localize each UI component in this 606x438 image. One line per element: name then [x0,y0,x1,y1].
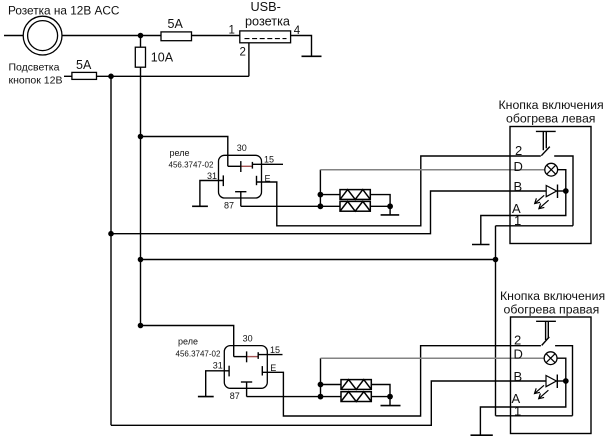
wire lamp line D right (gray) [321,357,545,359]
node junction pin1 riser [493,257,499,263]
node LED junction right [563,378,569,384]
wire 12V to relay K2 pin 30 [141,326,234,357]
svg-text:30: 30 [237,143,247,153]
switch S2 inside SW2 [536,320,556,322]
heater element R3 upper right [321,380,391,397]
wire relay K2 pin 15 stub [258,354,282,356]
node junction main 12V [138,33,144,39]
node heater junction lower right [318,394,324,400]
ground GND4 (button SW1) [472,244,490,246]
LED VD1 inside SW1 [546,186,556,197]
wire 12V to fuse F3 [140,36,142,48]
svg-text:2: 2 [514,332,521,347]
svg-text:розетка: розетка [245,15,291,29]
LED VD2 inside SW2 [546,376,556,387]
ground GND2 (relay K1) [192,205,208,207]
fuse F3 10A [135,47,145,67]
button SW2 right heater button [500,289,605,434]
wire button SW1 pin 1 row [496,225,574,227]
svg-text:Розетка на 12В ACC: Розетка на 12В ACC [8,4,120,18]
heater element R2 lower left [340,201,390,211]
node junction 12V bus to buttons [138,257,144,263]
wire USB pin 2 down to backlight net [248,43,250,77]
svg-text:5А: 5А [168,17,184,31]
wire button SW2 pin A to ground [480,381,565,435]
svg-text:30: 30 [243,333,253,343]
svg-text:5А: 5А [76,58,92,72]
socket XS1 12V ACC (double circle) [23,16,62,55]
node heater junction upper left [318,192,324,198]
svg-text:Кнопка включения: Кнопка включения [499,98,604,112]
wire backlight label to fuse F1 [64,75,72,77]
svg-text:15: 15 [264,155,274,165]
svg-text:31: 31 [207,171,217,181]
svg-text:кнопок 12В: кнопок 12В [9,75,63,87]
wire 12V bus to buttons pin 1 [141,259,496,261]
svg-text:B: B [514,179,523,194]
wire left stub to socket [4,35,23,37]
svg-text:E: E [270,363,276,373]
node junction backlight to B bus [108,231,114,237]
ground GND1 (USB) [302,55,322,57]
svg-text:87: 87 [230,391,240,401]
relay K1 456.3747-02 [169,143,275,211]
svg-text:обогрева левая: обогрева левая [506,112,595,126]
USB socket XS2 [240,31,291,43]
node heater junction lower left [318,203,324,209]
fuse F1 5A (backlight) [72,72,97,79]
wire heater tie riser left [319,170,321,207]
wire relay K1 pin 31 to ground [200,181,223,206]
relay K2 456.3747-02 [176,333,281,401]
ground GND5 (relay K2) [198,396,214,398]
wire lamp line D left (gray) [320,169,544,171]
wire 12V bus vertical [140,67,142,325]
svg-text:реле: реле [170,148,190,158]
wire relay K1 pin E to button SW1 pin 2 [257,156,541,226]
svg-text:Кнопка включения: Кнопка включения [500,289,605,303]
wire button SW1 pin A to ground [481,191,566,244]
wire relay K2 pin 31 to ground [206,371,229,396]
lamp HL1 inside SW1 [545,163,558,176]
pin 1 USB [229,25,235,37]
switch S1 inside SW1 [536,130,556,132]
wire relay K1 pin 87 to heaters [241,205,340,207]
node backlight 12V label [9,62,63,87]
wire socket to fuse F2 [62,35,161,37]
node heater junction upper right [318,382,324,388]
wire button SW2 switch loop [555,346,572,416]
svg-text:D: D [514,159,523,174]
svg-text:2: 2 [515,143,522,158]
node 12V ACC socket label [8,4,120,18]
wire pin1 riser vertical [495,226,497,416]
svg-text:15: 15 [270,345,280,355]
wire relay K1 pin 15 stub [252,163,283,165]
ground GND6 (heater right) [381,405,401,407]
wire backlight bus vertical [110,76,112,425]
wire button SW2 pin 1 row [496,415,573,417]
wire relay K2 pin 87 to heaters [247,396,341,398]
wire heater to ground left [389,206,391,215]
wire USB pin 4 to ground [291,36,312,57]
wire 12V to relay K1 pin 30 [141,137,228,167]
ground GND3 (heater left) [381,214,400,216]
node backlight junction [108,74,114,80]
svg-text:31: 31 [213,361,223,371]
svg-text:USB-: USB- [251,0,281,14]
svg-text:Подсветка: Подсветка [9,62,60,74]
svg-text:456.3747-02: 456.3747-02 [176,349,221,358]
lamp HL2 inside SW2 [544,352,557,365]
heater element R1 upper left [320,190,390,207]
svg-text:2: 2 [240,47,246,59]
fuse F2 5A [161,32,192,41]
svg-text:10А: 10А [151,51,174,65]
button SW1 left heater button [499,98,604,244]
svg-text:обогрева правая: обогрева правая [504,303,600,317]
heater element R4 lower right [341,392,390,402]
wire heater to ground right [389,397,391,406]
svg-text:87: 87 [224,201,234,211]
node heater ground junction right [387,394,393,400]
wire bottom backlight bus to right button B [111,381,546,425]
pin 4 USB [294,25,301,37]
node LED junction left [563,188,569,194]
wire button SW1 switch loop [554,156,573,226]
node junction relay K2 feed [138,323,144,329]
svg-text:1: 1 [229,25,235,37]
svg-text:B: B [514,369,523,384]
wire B bus left button [111,191,546,234]
wire fuse F1 to USB pin 2 [97,75,249,77]
pin 2 USB [240,47,246,59]
svg-text:456.3747-02: 456.3747-02 [169,161,214,170]
node heater ground junction left [387,203,393,209]
wire heater tie riser right [320,358,322,396]
ground GND7 (button SW2) [471,434,493,436]
svg-text:D: D [514,347,523,362]
wire relay K2 pin E to button SW2 pin 2 [262,346,541,416]
node junction relay K1 feed [138,134,144,140]
wire fuse F2 to USB pin 1 [192,35,240,37]
svg-text:реле: реле [178,337,198,347]
